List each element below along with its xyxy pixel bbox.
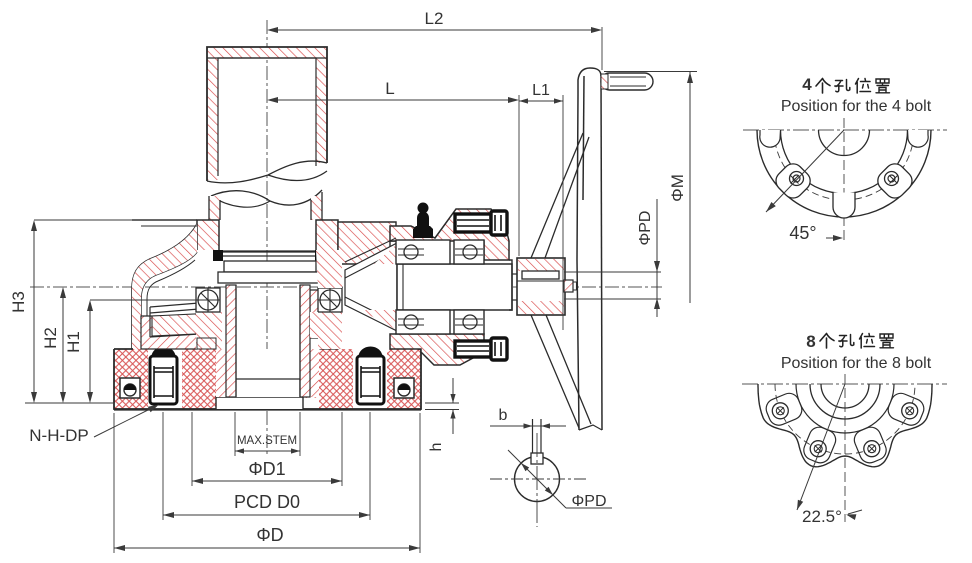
8-bolt bolt circle dashed [775, 384, 915, 454]
45 deg leader [766, 130, 844, 212]
svg-text:b: b [499, 407, 508, 424]
svg-text:8: 8 [806, 332, 815, 351]
body hatch under right bearing [318, 312, 342, 349]
svg-text:45°: 45° [789, 223, 816, 243]
22.5 deg leader [797, 384, 845, 510]
dim H3 [33, 226, 35, 398]
bearing left (square housing + ball) [196, 288, 220, 312]
hatch strips beside bore bottom [216, 349, 226, 397]
8-bolt petal cutouts [763, 390, 805, 428]
8-bolt bolts [772, 403, 788, 419]
tube break (wavy) [207, 161, 327, 183]
8-bolt mid arc r49 [796, 384, 894, 433]
svg-text:ΦM: ΦM [668, 174, 687, 202]
base flange [114, 349, 421, 410]
inner cavity outline [147, 260, 195, 330]
8-bolt inner bore arcs [810, 384, 880, 419]
svg-text:h: h [428, 443, 445, 452]
socket head bolt upper right (black) [455, 211, 507, 235]
worm housing lower hatched outline [390, 334, 484, 365]
dim b [490, 425, 566, 427]
body top plate left [132, 219, 197, 221]
body left curved arm outer [132, 224, 197, 349]
svg-text:PCD D0: PCD D0 [234, 492, 300, 512]
svg-text:ΦD: ΦD [256, 525, 283, 545]
4-bolt flange centerlines [743, 129, 947, 131]
handwheel rim side view [577, 68, 602, 430]
svg-text:ΦD1: ΦD1 [248, 459, 285, 479]
body wedge below collar right [316, 250, 342, 288]
bolt hole section left (square + circle) [120, 378, 140, 398]
lower hatched body zones around stem [197, 338, 216, 349]
body left curved arm inner [141, 252, 197, 335]
svg-text:MAX.STEM: MAX.STEM [237, 435, 297, 447]
body top right hatched block [338, 222, 396, 264]
arm wall hatch [132, 224, 197, 349]
worm shaft [397, 264, 512, 310]
shaft section detail [490, 419, 586, 527]
worm wheel hub cone [345, 243, 397, 331]
dim h [425, 402, 459, 404]
svg-text:L1: L1 [532, 82, 550, 99]
dim PhiD1 [191, 412, 193, 486]
worm housing upper hatched outline [390, 209, 509, 260]
tube collar / stuffing box [197, 220, 338, 250]
dim PhiD [113, 413, 115, 553]
svg-text:Position for the 8 bolt: Position for the 8 bolt [781, 355, 932, 372]
stem protection tube lower section [209, 192, 322, 220]
dim PCD D0 [162, 412, 164, 520]
8-bolt scalloped outer profile [758, 384, 932, 467]
wheel rim hatched section left [152, 313, 216, 336]
worm tooth hatched wedges [374, 244, 397, 264]
handwheel handle [601, 73, 653, 90]
stud bolt right [357, 347, 384, 404]
svg-text:Position for the 4 bolt: Position for the 4 bolt [781, 98, 932, 115]
shaft through hub [512, 273, 517, 275]
horizontal centerline of worm shaft [30, 286, 662, 288]
leader N-H-DP [94, 406, 156, 437]
dim H1 [89, 305, 91, 398]
svg-text:4: 4 [802, 75, 812, 94]
seal plate with black seals [213, 250, 325, 261]
bearing right (square housing + ball) [318, 288, 342, 312]
svg-text:22.5°: 22.5° [802, 507, 842, 526]
vertical centerline of stem [266, 20, 268, 456]
handwheel hub [517, 258, 565, 315]
body hatch under left bearing [196, 312, 222, 349]
4-bolt side slots [760, 130, 781, 147]
dim H2 [62, 292, 64, 398]
svg-text:H3: H3 [9, 291, 28, 313]
upper bearing blocks on worm shaft [396, 240, 484, 264]
4-bolt small bore arc [819, 130, 870, 156]
shaft end nut [564, 280, 573, 292]
stem protection tube upper section [207, 47, 327, 181]
dim L2 [278, 29, 591, 31]
top plate inner line [141, 225, 197, 227]
4-bolt bolts [790, 172, 804, 186]
handwheel spokes [531, 133, 589, 258]
svg-text:H1: H1 [64, 331, 83, 353]
stem nut upper rings [218, 261, 322, 283]
bearing cap right face [509, 260, 512, 310]
dim PhiM [604, 71, 697, 73]
socket head bolt lower right (black) [455, 338, 507, 360]
4-bolt bolt circle (dashed) [774, 130, 914, 200]
stud bolt N-H-DP left [150, 347, 177, 404]
4-bolt inner bore arc [781, 130, 908, 194]
svg-text:L: L [385, 79, 394, 98]
svg-text:ΦPD: ΦPD [637, 211, 654, 246]
dim PhiPD vertical [656, 199, 658, 317]
svg-text:ΦPD: ΦPD [572, 493, 607, 510]
interior hatched block right of bore [310, 290, 338, 349]
leader PhiPD on section [508, 450, 566, 508]
grease fitting (black) [413, 203, 433, 239]
dim MAX.STEM [234, 412, 236, 456]
svg-text:H2: H2 [41, 327, 60, 349]
lower bearing blocks on worm shaft [396, 310, 484, 334]
4-bolt petal cutouts [772, 160, 814, 202]
dim L1 [519, 98, 528, 103]
bolt hole section right (square + circle) [394, 378, 414, 398]
worm wheel spoke left (white wedge) [150, 303, 216, 337]
svg-text:N-H-DP: N-H-DP [29, 426, 89, 445]
dim L [278, 99, 508, 101]
svg-text:L2: L2 [425, 9, 444, 28]
8-bolt centerlines [742, 383, 947, 385]
4-bolt bottom slot [833, 193, 855, 219]
interior hatched block left of bore [141, 316, 216, 349]
stem nut sleeve walls [226, 285, 310, 397]
4-bolt flange outer arc [757, 130, 931, 217]
